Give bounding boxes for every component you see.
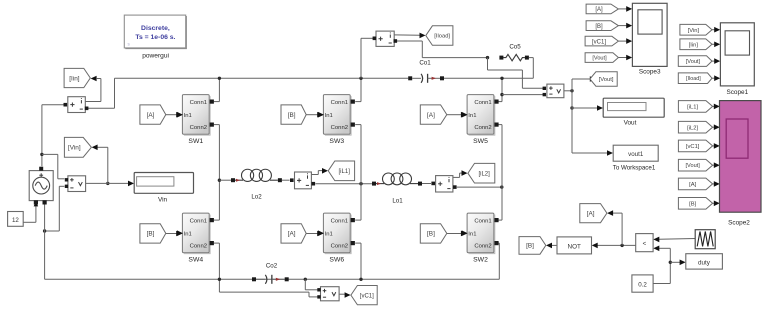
svg-text:SW4: SW4 (188, 256, 203, 263)
svg-text:[vC1]: [vC1] (592, 39, 606, 45)
svg-text:[iL1]: [iL1] (339, 169, 351, 175)
svg-text:In1: In1 (468, 231, 476, 237)
svg-text:Conn1: Conn1 (190, 100, 207, 106)
svg-text:Scope1: Scope1 (726, 89, 748, 96)
svg-text:Conn2: Conn2 (190, 125, 207, 131)
svg-text:[A]: [A] (595, 7, 603, 13)
svg-text:[iL1]: [iL1] (687, 104, 698, 110)
svg-text:12: 12 (12, 217, 19, 224)
svg-text:Ts = 1e-06 s.: Ts = 1e-06 s. (135, 34, 175, 41)
svg-text:In1: In1 (325, 231, 333, 237)
svg-text:[B]: [B] (288, 112, 296, 119)
svg-text:Co5: Co5 (509, 44, 521, 51)
svg-text:[Iin]: [Iin] (69, 75, 80, 82)
svg-text:Conn1: Conn1 (190, 219, 207, 225)
svg-text:SW5: SW5 (473, 138, 488, 145)
svg-text:Conn2: Conn2 (474, 125, 491, 131)
svg-text:Conn2: Conn2 (331, 125, 348, 131)
svg-text:Conn1: Conn1 (474, 219, 491, 225)
svg-text:duty: duty (698, 260, 711, 267)
svg-text:[Vout]: [Vout] (685, 163, 700, 169)
svg-text:Conn2: Conn2 (331, 244, 348, 250)
svg-text:vout1: vout1 (628, 151, 644, 158)
svg-text:[Vout]: [Vout] (599, 77, 614, 83)
svg-text:[B]: [B] (147, 231, 155, 238)
svg-text:[Vin]: [Vin] (688, 28, 700, 34)
svg-text:Conn2: Conn2 (190, 244, 207, 250)
svg-text:[B]: [B] (427, 231, 435, 238)
svg-text:[iL2]: [iL2] (478, 171, 490, 177)
svg-text:Conn1: Conn1 (331, 100, 348, 106)
svg-text:SW1: SW1 (188, 138, 203, 145)
svg-text:[B]: [B] (526, 243, 534, 250)
svg-text:[Vin]: [Vin] (68, 145, 81, 152)
svg-text:[A]: [A] (689, 182, 696, 188)
svg-text:Co1: Co1 (419, 59, 431, 66)
svg-text:0.2: 0.2 (638, 282, 647, 289)
svg-text:Conn1: Conn1 (331, 219, 348, 225)
svg-text:Co2: Co2 (266, 263, 278, 270)
svg-text:[A]: [A] (587, 210, 595, 217)
svg-text:[Vout]: [Vout] (686, 59, 701, 65)
svg-text:SW6: SW6 (329, 256, 344, 263)
svg-text:[Iload]: [Iload] (434, 34, 450, 40)
svg-text:powergui: powergui (142, 52, 169, 59)
svg-text:SW2: SW2 (473, 256, 488, 263)
svg-text:In1: In1 (325, 113, 333, 119)
svg-text:<: < (643, 240, 647, 247)
svg-text:[A]: [A] (288, 231, 296, 238)
svg-text:In1: In1 (184, 231, 192, 237)
svg-text:Conn2: Conn2 (474, 244, 491, 250)
svg-text:[iL2]: [iL2] (687, 125, 698, 131)
svg-text:Vin: Vin (158, 197, 168, 204)
svg-text:[A]: [A] (147, 112, 155, 119)
svg-text:Conn1: Conn1 (474, 100, 491, 106)
svg-text:[vC1]: [vC1] (360, 293, 374, 299)
svg-text:Scope2: Scope2 (728, 220, 750, 227)
svg-text:NOT: NOT (568, 243, 581, 250)
svg-text:Lo1: Lo1 (392, 198, 403, 205)
svg-text:[B]: [B] (595, 24, 603, 30)
svg-text:[vC1]: [vC1] (686, 144, 700, 150)
svg-text:To Workspace1: To Workspace1 (613, 165, 656, 172)
svg-text:[B]: [B] (689, 201, 696, 207)
svg-text:In1: In1 (468, 113, 476, 119)
svg-text:SW3: SW3 (329, 138, 344, 145)
svg-text:[Iin]: [Iin] (689, 42, 699, 48)
svg-text:[A]: [A] (427, 112, 435, 119)
svg-text:Lo2: Lo2 (251, 194, 262, 201)
svg-text:[Iload]: [Iload] (686, 76, 701, 82)
svg-text:[Vout]: [Vout] (592, 56, 607, 62)
svg-text:In1: In1 (184, 113, 192, 119)
svg-text:Scope3: Scope3 (639, 69, 661, 76)
svg-text:Vout: Vout (624, 120, 637, 127)
svg-text:Discrete,: Discrete, (141, 25, 170, 32)
